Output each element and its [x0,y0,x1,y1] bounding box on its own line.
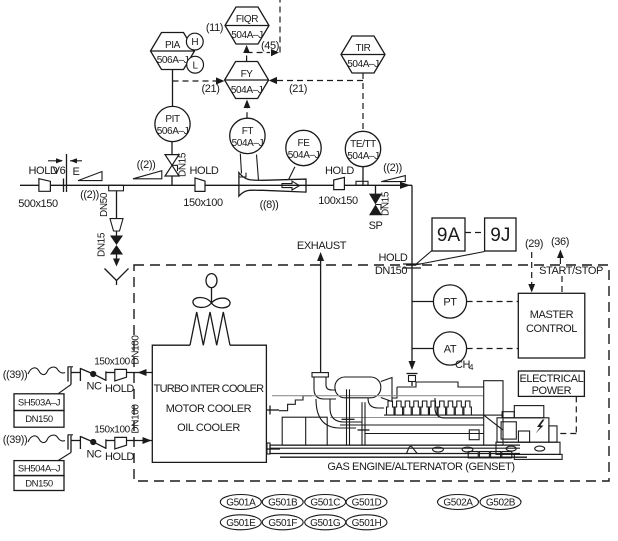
svg-text:(45): (45) [261,40,279,52]
svg-text:(11): (11) [206,22,223,34]
svg-text:DN150: DN150 [25,479,53,490]
svg-text:DN100: DN100 [131,335,142,365]
svg-text:PIA: PIA [165,40,181,51]
svg-text:GAS ENGINE/ALTERNATOR (GENSET): GAS ENGINE/ALTERNATOR (GENSET) [327,461,514,473]
svg-text:100x150: 100x150 [318,195,358,207]
svg-text:ELECTRICAL: ELECTRICAL [519,373,583,385]
svg-text:DN15: DN15 [381,191,392,216]
svg-text:TIR: TIR [356,43,371,54]
svg-text:G501C: G501C [310,498,340,509]
svg-text:9J: 9J [490,225,510,246]
svg-text:G502B: G502B [486,498,516,509]
svg-text:((2)): ((2)) [137,159,156,171]
svg-text:G501E: G501E [226,518,256,529]
svg-text:SH504A–J: SH504A–J [18,464,61,475]
svg-text:FE: FE [298,138,311,149]
svg-text:CONTROL: CONTROL [526,323,577,335]
svg-text:DN100: DN100 [131,404,142,434]
svg-text:(21): (21) [289,83,307,95]
svg-text:G501D: G501D [352,498,382,509]
svg-text:DN150: DN150 [25,414,53,425]
svg-text:START/STOP: START/STOP [539,265,603,277]
svg-text:(29): (29) [525,238,543,250]
svg-text:MOTOR COOLER: MOTOR COOLER [166,403,252,415]
svg-text:((2)): ((2)) [383,162,402,174]
svg-text:150x100: 150x100 [94,425,130,436]
svg-text:504A–J: 504A–J [347,151,379,162]
svg-text:150x100: 150x100 [183,197,223,209]
svg-text:DN150: DN150 [375,265,408,277]
svg-text:G501F: G501F [268,518,297,529]
svg-text:DN50: DN50 [99,192,110,217]
svg-text:OIL COOLER: OIL COOLER [177,422,240,434]
svg-text:POWER: POWER [532,385,572,397]
svg-text:TURBO INTER COOLER: TURBO INTER COOLER [154,383,265,395]
svg-text:SH503A–J: SH503A–J [18,398,61,409]
svg-text:G501G: G501G [310,518,341,529]
svg-text:504A–J: 504A–J [231,85,263,96]
svg-text:HOLD: HOLD [105,383,134,395]
svg-text:(36): (36) [551,236,569,248]
svg-text:HOLD: HOLD [325,165,354,177]
svg-text:G501A: G501A [226,498,256,509]
svg-text:NC: NC [86,381,102,393]
svg-text:V6: V6 [53,165,66,177]
svg-text:506A–J: 506A–J [157,126,189,137]
svg-text:((39)): ((39)) [3,369,28,381]
svg-text:L: L [193,60,199,71]
svg-text:G502A: G502A [443,498,473,509]
svg-text:((39)): ((39)) [3,434,28,446]
svg-text:H: H [191,37,198,48]
svg-text:PIT: PIT [165,114,180,125]
svg-text:504A–J: 504A–J [231,30,263,41]
svg-text:HOLD: HOLD [379,252,408,264]
svg-text:PT: PT [443,297,457,309]
svg-text:150x100: 150x100 [94,357,130,368]
svg-text:MASTER: MASTER [530,309,574,321]
svg-text:504A–J: 504A–J [347,59,379,70]
svg-text:(21): (21) [202,83,220,95]
svg-text:HOLD: HOLD [190,165,219,177]
svg-text:((2)): ((2)) [80,189,99,201]
svg-text:504A–J: 504A–J [232,138,264,149]
svg-text:G501H: G501H [352,518,382,529]
svg-text:HOLD: HOLD [105,451,134,463]
svg-text:DN15: DN15 [178,152,189,177]
svg-text:AT: AT [444,344,457,356]
svg-text:EXHAUST: EXHAUST [297,240,347,252]
svg-text:E: E [73,166,80,178]
svg-text:506A–J: 506A–J [157,55,189,66]
svg-text:FT: FT [242,126,254,137]
svg-text:9A: 9A [437,225,461,246]
svg-text:DN15: DN15 [97,232,108,257]
svg-text:SP: SP [369,220,383,232]
svg-text:FY: FY [241,69,254,80]
svg-text:4: 4 [469,363,474,372]
svg-text:G501B: G501B [268,498,298,509]
svg-text:NC: NC [86,449,102,461]
svg-text:504A–J: 504A–J [288,150,320,161]
svg-text:500x150: 500x150 [18,198,58,210]
svg-text:FIQR: FIQR [236,14,258,25]
svg-text:((8)): ((8)) [260,199,279,211]
svg-text:TE/TT: TE/TT [350,139,376,150]
